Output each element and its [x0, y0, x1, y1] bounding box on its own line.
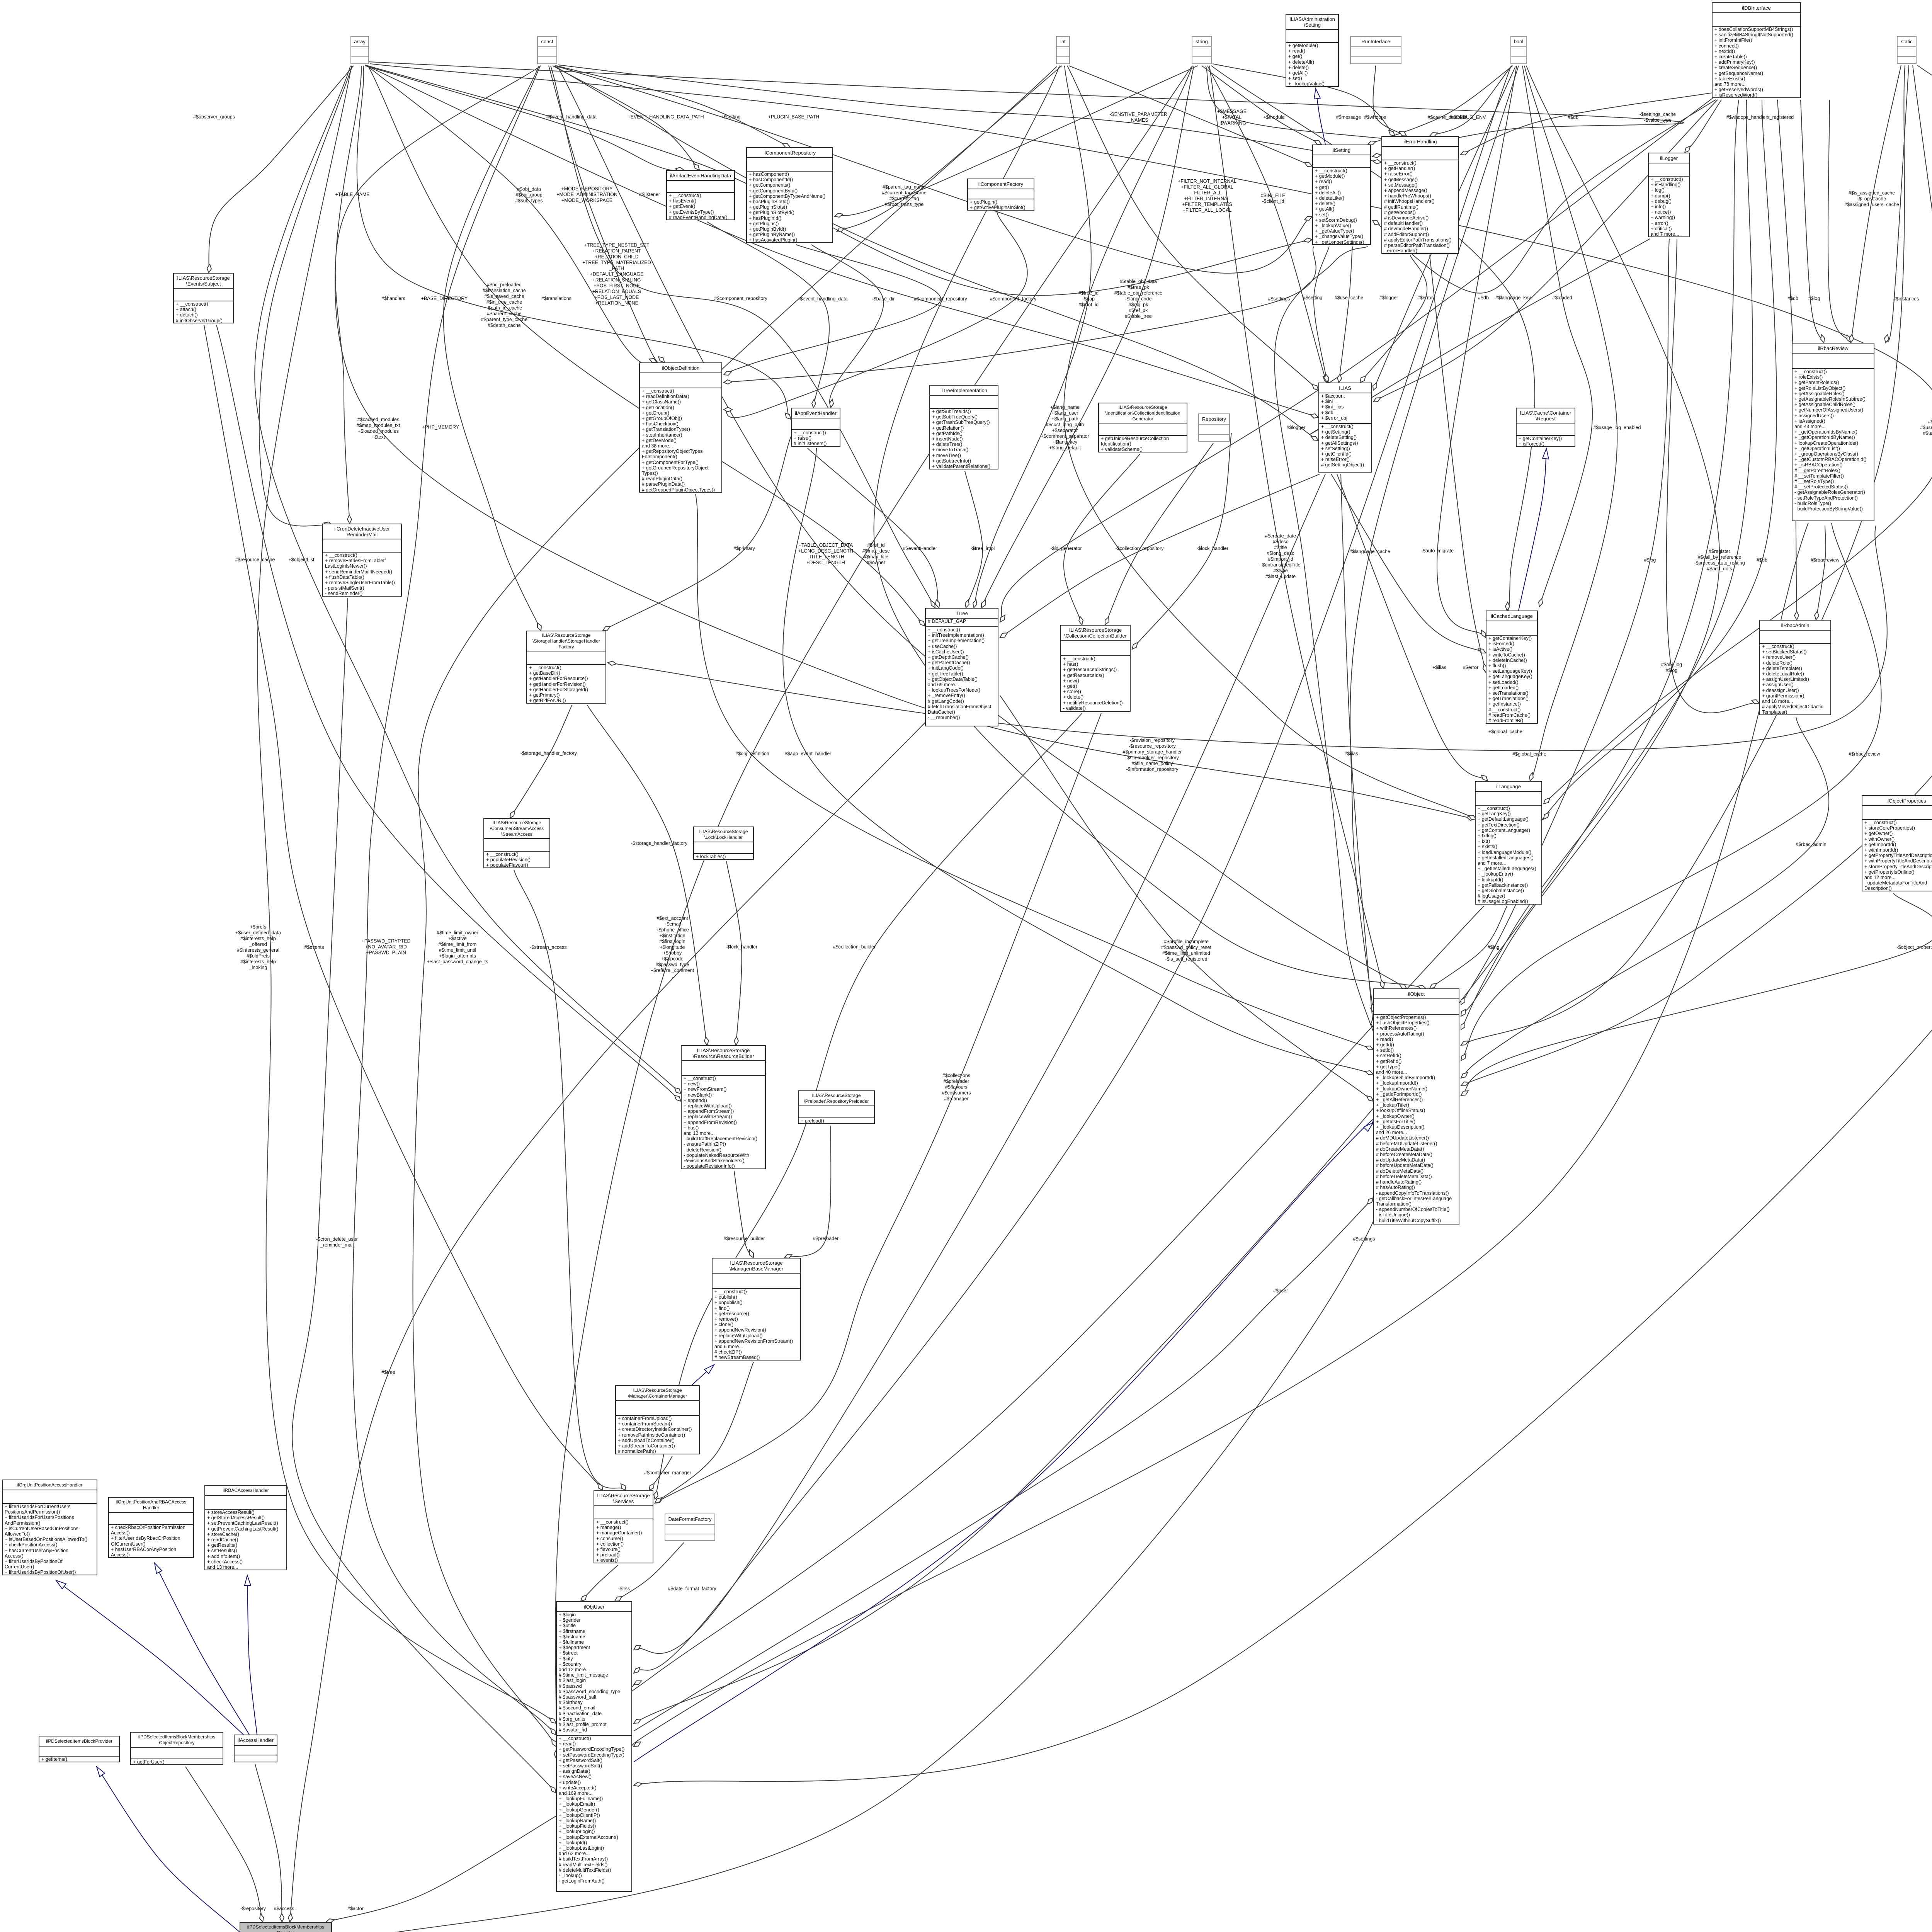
- class ilLanguage: [1475, 781, 1542, 905]
- class ilArtifactEventHandlingData: [666, 170, 735, 220]
- class ilObjUser: [556, 1601, 632, 1892]
- class ILIAS\Cache\Container: [1516, 408, 1575, 447]
- class ilObjectProperties: [1862, 795, 1932, 891]
- class ilObjectDefinition: [639, 362, 722, 493]
- class RunInterface: [1350, 36, 1401, 64]
- class const: [537, 36, 557, 64]
- class ilOrgUnitPositionAndRBACAccess: [108, 1497, 194, 1558]
- class ILIAS\Administration: [1286, 14, 1339, 87]
- class array: [350, 36, 369, 64]
- class ilCronDeleteInactiveUser: [322, 524, 402, 597]
- class bool: [1510, 36, 1527, 64]
- class ilComponentRepository: [746, 147, 833, 243]
- class string: [1192, 36, 1212, 64]
- class static: [1897, 36, 1917, 64]
- class ilPDSelectedItemsBlockProvider: [39, 1736, 120, 1762]
- class ilTree: [925, 608, 998, 726]
- class int: [1056, 36, 1070, 64]
- class ilRbacReview: [1792, 343, 1874, 521]
- class ILIAS\ResourceStorage: [173, 273, 234, 323]
- class ilCachedLanguage: [1486, 611, 1538, 724]
- class ilPDSelectedItemsBlockMemberships: [130, 1732, 223, 1765]
- class ILIAS\ResourceStorage: [526, 631, 606, 704]
- class Repository: [1198, 413, 1230, 442]
- class ILIAS\ResourceStorage: [1060, 625, 1131, 712]
- class ilTreeImplementation: [929, 385, 998, 469]
- class ilAppEventHandler: [791, 408, 840, 447]
- class ilSetting: [1312, 145, 1371, 245]
- class ILIAS\ResourceStorage: [681, 1045, 766, 1169]
- class ILIAS\ResourceStorage: [798, 1090, 875, 1124]
- class ilLogger: [1648, 153, 1690, 237]
- class ILIAS: [1318, 383, 1372, 473]
- class ilDBInterface: [1712, 2, 1801, 98]
- class ILIAS\ResourceStorage: [615, 1385, 700, 1454]
- class ILIAS\ResourceStorage: [594, 1490, 653, 1563]
- class ilComponentFactory: [967, 179, 1034, 211]
- edge member-name labels: [193, 114, 235, 120]
- class ilOrgUnitPositionAccessHandler: [2, 1480, 97, 1575]
- class ilRBACAccessHandler: [204, 1485, 287, 1570]
- class ilAccessHandler: [234, 1735, 277, 1762]
- class ILIAS\ResourceStorage: [1098, 403, 1187, 452]
- class ilPDSelectedItemsBlockMembershipsProvider (highlighted): [240, 1922, 332, 1932]
- class ILIAS\ResourceStorage: [693, 827, 754, 860]
- class ilObject: [1373, 988, 1459, 1225]
- class ILIAS\ResourceStorage: [712, 1258, 801, 1361]
- class ilRbacAdmin: [1759, 620, 1831, 715]
- class ilErrorHandling: [1381, 136, 1459, 254]
- class ILIAS\ResourceStorage: [483, 818, 550, 868]
- class DateFormatFactory: [665, 1514, 715, 1541]
